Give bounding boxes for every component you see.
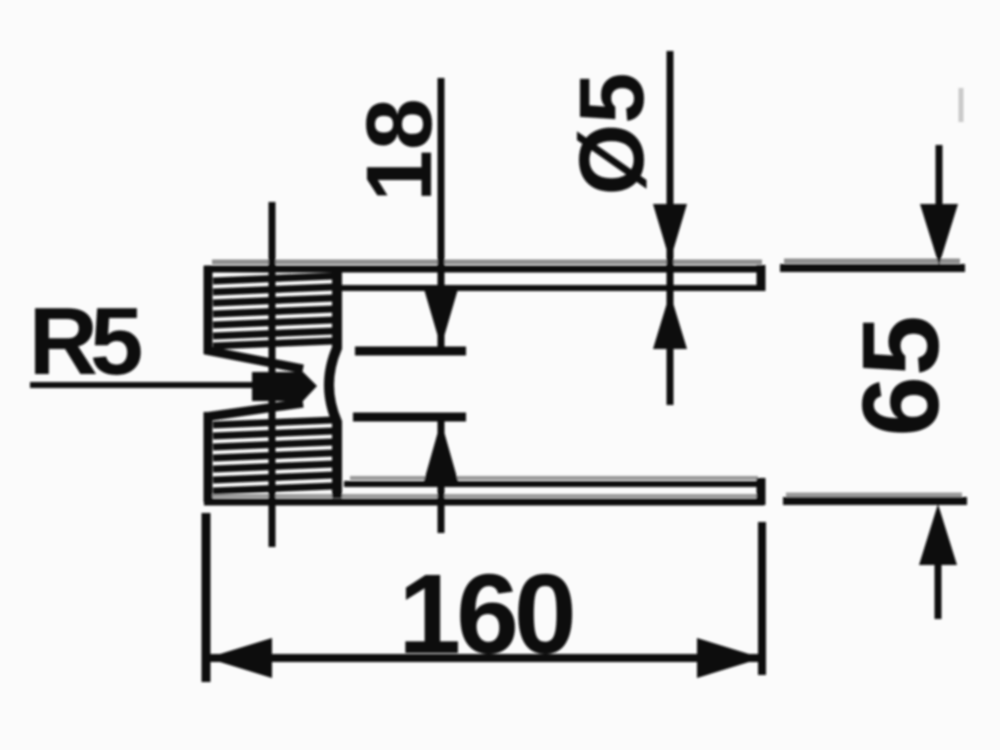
dimension 65 bottom arrowhead — [919, 504, 957, 565]
diameter 5 lower arrowhead — [653, 293, 687, 349]
upper tine arm right end cap — [757, 265, 766, 291]
upper tine arm top edge — [204, 266, 764, 273]
gray halo above lower tine arm — [350, 476, 758, 480]
coil centerline — [269, 202, 276, 547]
dimension 18 lower arrowhead — [424, 421, 458, 481]
dimension 65 top extension line gray halo — [784, 259, 960, 264]
lower coil hatching — [213, 420, 333, 491]
upper coil hatching — [213, 276, 333, 346]
svg-text:R5: R5 — [29, 288, 141, 395]
dimension 65 top extension line — [780, 264, 965, 272]
gray halo mid lower arm — [210, 494, 758, 498]
dimension 65 bottom extension line gray halo — [786, 493, 962, 498]
dimension 18 upper extension line — [438, 78, 445, 347]
svg-text:160: 160 — [398, 551, 573, 677]
dimension 18 lower extension line — [438, 420, 445, 533]
dimension 18 upper tick — [355, 347, 466, 356]
lower coil block top slant into bend — [205, 403, 303, 417]
dimension 65 bottom arrow line — [935, 560, 942, 619]
gray halo above upper tine arm — [212, 260, 762, 265]
upper coil block right edge and bend outer curve and lower block right edge — [329, 270, 337, 498]
upper coil block bottom slant into bend — [205, 350, 303, 369]
dimension 18 upper arrowhead — [424, 289, 458, 347]
diameter 5 upper arrowhead — [653, 204, 687, 261]
R5 leader line — [30, 382, 258, 388]
dimension 160 left arrowhead — [207, 638, 272, 678]
dimension 65 bottom extension line — [783, 497, 967, 505]
dimension 160 right extension line — [758, 522, 766, 675]
svg-text:18: 18 — [347, 98, 451, 201]
svg-text:65: 65 — [840, 315, 962, 436]
svg-text:Ø5: Ø5 — [561, 73, 663, 196]
lower coil block left edge — [204, 412, 213, 502]
dimension diameter 5 line — [667, 51, 674, 405]
upper tine arm bottom edge — [341, 285, 764, 291]
dimension 160 line — [207, 654, 762, 662]
lower tine arm right end cap — [757, 478, 766, 505]
lower tine arm top edge — [344, 481, 764, 487]
lower tine arm bottom edge — [204, 499, 764, 506]
dimension 160 left extension line — [202, 513, 211, 682]
dimension 65 top arrowhead — [920, 204, 958, 265]
upper coil block left edge — [204, 266, 213, 354]
R5 leader arrowhead blob — [252, 372, 317, 401]
dimension 160 right arrowhead — [697, 638, 762, 678]
faint scan artifact — [959, 88, 964, 122]
dimension 65 top arrow line — [936, 145, 943, 210]
dimension 18 lower tick — [353, 413, 466, 422]
